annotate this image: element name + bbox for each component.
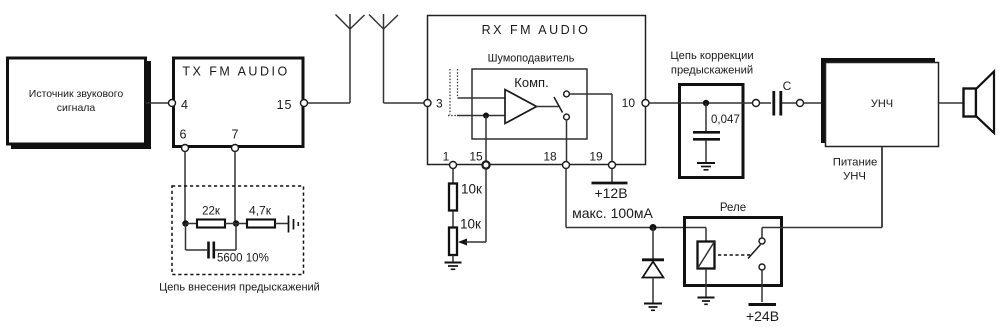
resistor R3 22k xyxy=(186,206,248,228)
relay coil K1 xyxy=(698,242,715,269)
resistor R4 4.7k xyxy=(247,204,288,228)
wire: pin 19 to +12V xyxy=(611,169,613,183)
wire: source output to TX pin 4 xyxy=(146,102,169,104)
svg-text:Цепь внесения предыскажений: Цепь внесения предыскажений xyxy=(159,282,320,294)
wire: TX pin 6 down xyxy=(184,152,186,224)
wire: coil to ground xyxy=(705,269,707,297)
wiper of R2 to pin 15 xyxy=(458,169,486,246)
svg-text:15: 15 xyxy=(469,150,483,164)
node: junction in correction box xyxy=(703,100,709,106)
wire: through correction box xyxy=(679,102,744,104)
ground below R2 xyxy=(445,263,462,270)
power +12V xyxy=(592,183,628,201)
wire: comparator upper input xyxy=(458,97,506,99)
wire: junction to RX pin 15 xyxy=(485,116,487,162)
block: noise suppressor (Шумоподавитель) xyxy=(472,53,587,140)
svg-text:1: 1 xyxy=(443,150,450,164)
svg-text:Реле: Реле xyxy=(720,202,746,214)
block: УНЧ amplifier xyxy=(821,58,939,147)
svg-text:7: 7 xyxy=(232,128,239,142)
wire: pin 18 down and right to relay xyxy=(566,169,706,228)
node: junction below pin 6 xyxy=(182,220,188,226)
ground in correction box xyxy=(697,163,715,170)
pin 15 of TX xyxy=(277,98,308,112)
svg-text:макс. 100мА: макс. 100мА xyxy=(572,205,653,221)
svg-text:RX FM AUDIO: RX FM AUDIO xyxy=(482,23,591,37)
wire: relay box entry to coil xyxy=(686,228,706,242)
svg-text:Цепь коррекции: Цепь коррекции xyxy=(670,50,753,62)
node: junction below pin 7 xyxy=(233,220,239,226)
terminal circle before УНЧ xyxy=(782,100,826,107)
wire: УНЧ power feed down xyxy=(881,148,883,228)
dashed mechanical link coil to contacts xyxy=(718,254,750,256)
node: junction on lower input xyxy=(483,113,489,119)
svg-text:4,7к: 4,7к xyxy=(249,204,272,218)
svg-text:+12В: +12В xyxy=(594,185,627,201)
wire: relay upper contact to УНЧ supply xyxy=(762,147,882,238)
terminal circle after correction box xyxy=(744,100,771,107)
svg-text:19: 19 xyxy=(589,150,603,164)
resistor R1 10k xyxy=(449,182,482,211)
dotted internal path from pin 3 (right branch) xyxy=(457,69,459,97)
wire: УНЧ output to speaker xyxy=(939,102,963,104)
op-amp comparator U1 (Комп.) xyxy=(505,75,559,124)
pin 4 of TX xyxy=(169,98,189,112)
svg-text:10: 10 xyxy=(622,96,636,110)
svg-text:22к: 22к xyxy=(202,206,221,218)
antenna TX xyxy=(336,14,365,103)
switch S1 (noise gate) arm and contacts xyxy=(554,91,569,120)
pin 15 of RX xyxy=(469,150,489,169)
svg-text:TX FM AUDIO: TX FM AUDIO xyxy=(182,65,289,79)
wire: switch upper contact to pin 19 xyxy=(570,94,613,162)
svg-text:15: 15 xyxy=(277,98,293,112)
svg-text:С: С xyxy=(783,79,792,93)
capacitor C1 0,047 xyxy=(693,103,740,163)
svg-text:10к: 10к xyxy=(461,182,482,197)
pin 6 of TX xyxy=(180,128,189,152)
wire: pin 1 to resistor R1 xyxy=(452,169,454,184)
block: relay (Реле) xyxy=(685,202,782,286)
svg-text:6: 6 xyxy=(180,128,187,142)
node: junction at diode VD1 xyxy=(650,224,657,231)
svg-text:УНЧ: УНЧ xyxy=(843,171,866,183)
svg-text:10к: 10к xyxy=(460,217,481,232)
pin 1 of RX xyxy=(443,150,457,169)
wire: TX pin 15 to TX antenna xyxy=(308,102,351,104)
svg-text:Питание: Питание xyxy=(833,157,878,169)
label: Питание УНЧ xyxy=(833,157,878,183)
svg-text:Источник звукового: Источник звукового xyxy=(29,88,124,100)
resistor R2 10k trimmer xyxy=(449,217,481,256)
svg-text:3: 3 xyxy=(436,97,443,111)
svg-text:+24В: +24В xyxy=(746,308,779,324)
block: correction circuit (Цепь коррекции предыскажений) xyxy=(670,50,753,178)
wire: pin 10 to correction box xyxy=(649,102,679,104)
capacitor C2 5600 10% xyxy=(186,224,269,265)
svg-text:предыскажений: предыскажений xyxy=(671,65,753,77)
block: audio source (Источник звукового сигнала) xyxy=(8,58,152,149)
diode VD1 xyxy=(642,228,664,304)
pin 10 of RX xyxy=(622,96,649,110)
wire: comparator lower input xyxy=(457,115,505,117)
wire: TX pin 7 down xyxy=(234,152,236,224)
pin 7 of TX xyxy=(232,128,239,152)
speaker xyxy=(964,72,995,134)
ground below relay coil xyxy=(698,298,715,305)
svg-text:Шумоподавитель: Шумоподавитель xyxy=(488,53,575,65)
block: pre-emphasis dashed box xyxy=(172,186,304,275)
pin 19 of RX xyxy=(589,150,615,169)
svg-text:4: 4 xyxy=(181,98,188,112)
power +24V xyxy=(746,305,779,325)
svg-text:0,047: 0,047 xyxy=(711,114,740,126)
block: TX FM AUDIO xyxy=(174,58,304,147)
pin 18 of RX xyxy=(543,150,569,169)
svg-text:УНЧ: УНЧ xyxy=(871,98,893,110)
wire: switch lower contact to pin 18 xyxy=(566,120,568,162)
ground below diode VD1 xyxy=(644,304,662,311)
wire: R1 to R2 xyxy=(452,211,454,228)
wire: relay lower contact to +24V xyxy=(761,270,763,302)
block: RX FM AUDIO xyxy=(428,16,646,165)
capacitor C (coupling to УНЧ) xyxy=(774,79,792,116)
antenna RX xyxy=(369,14,398,103)
relay switch contacts xyxy=(748,238,765,270)
wire: R2 to ground xyxy=(452,255,454,263)
capacitor (small output coupling) xyxy=(289,216,299,233)
wire: RX antenna to RX pin 3 xyxy=(384,102,424,104)
svg-text:5600 10%: 5600 10% xyxy=(217,253,269,265)
dotted internal path from pin 3 (left branch) xyxy=(448,69,457,116)
svg-text:сигнала: сигнала xyxy=(57,102,96,114)
svg-text:18: 18 xyxy=(543,150,557,164)
pin 3 of RX xyxy=(424,97,443,111)
svg-text:Комп.: Комп. xyxy=(514,75,548,90)
